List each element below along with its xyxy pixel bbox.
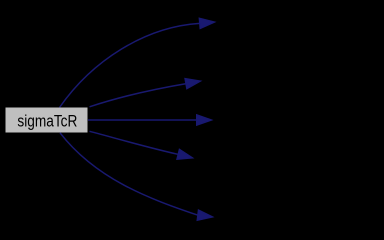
arrowhead 1 [199, 18, 215, 29]
wire edge 2 [90, 84, 186, 107]
arrowhead 5 [197, 210, 213, 221]
arrowhead 3 [197, 115, 213, 126]
wire edge 3 [88, 119, 197, 121]
wire edge 5 [60, 133, 198, 215]
svg-text:sigmaTcR: sigmaTcR [17, 113, 77, 131]
arrowhead 4 [177, 149, 193, 160]
node sigmaTcR [6, 108, 88, 133]
wire edge 1 [60, 23, 200, 107]
wire edge 4 [90, 131, 179, 154]
arrowhead 2 [185, 78, 201, 89]
